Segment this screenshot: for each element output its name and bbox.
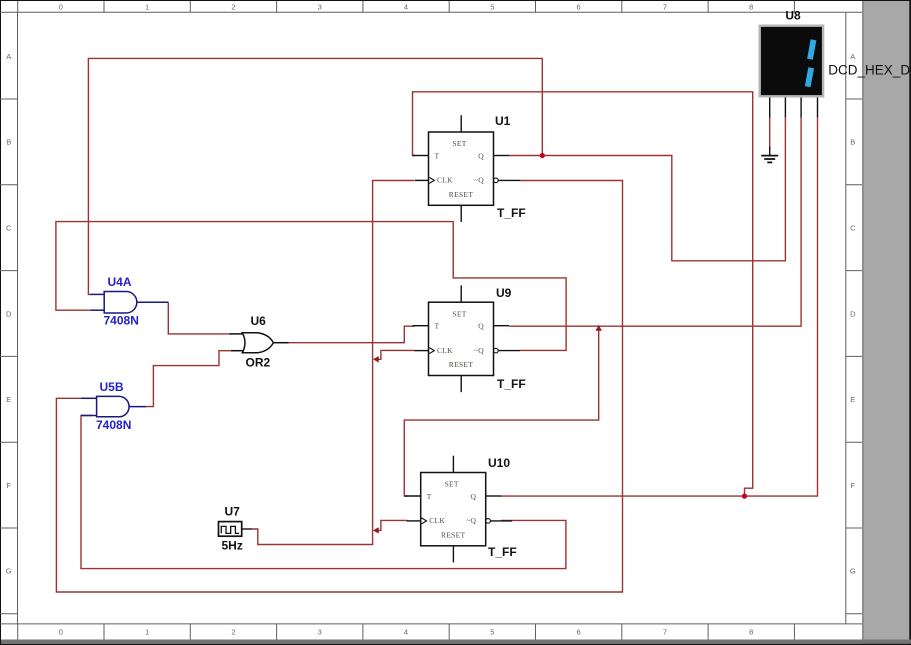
- svg-text:4: 4: [404, 628, 408, 637]
- svg-text:D: D: [850, 309, 856, 318]
- svg-text:E: E: [850, 395, 855, 404]
- right scrollbar: [862, 0, 911, 645]
- junction arrow U9.Q branch: [596, 325, 602, 331]
- wire branch U1.Q to U4A input 1: [88, 58, 542, 294]
- svg-text:7408N: 7408N: [104, 314, 139, 328]
- wire U10.Q to display pin4: [501, 117, 818, 496]
- svg-text:6: 6: [577, 628, 581, 637]
- junction dot U1.Q: [540, 153, 545, 158]
- svg-text:T_FF: T_FF: [497, 206, 526, 220]
- svg-text:G: G: [850, 567, 856, 576]
- svg-text:E: E: [6, 395, 11, 404]
- svg-text:G: G: [6, 567, 12, 576]
- clock source U7: [219, 522, 252, 537]
- bottom ruler ticks: [18, 624, 795, 640]
- svg-text:B: B: [6, 138, 11, 147]
- top ruler ticks: [18, 1, 795, 12]
- wire U9.~Q to U4A input 2: [56, 222, 566, 351]
- AND gate U5B: [81, 396, 146, 416]
- wire U5B.out to U6 input 2: [146, 351, 231, 407]
- svg-text:8: 8: [749, 628, 753, 637]
- left border letters: [6, 52, 12, 576]
- svg-text:A: A: [6, 52, 11, 61]
- svg-text:F: F: [851, 481, 856, 490]
- svg-text:B: B: [850, 138, 855, 147]
- bottom scrollbar: [0, 640, 911, 645]
- bottom ruler digits: [59, 628, 754, 637]
- wire U4A.out to U6 input 1: [168, 302, 229, 334]
- svg-text:1: 1: [145, 3, 149, 12]
- junction dot U10.Q: [742, 494, 747, 499]
- wire branch clock to U9.CLK: [376, 350, 415, 359]
- wire branch U9.Q to U10.T: [404, 326, 598, 496]
- wire branch U10.Q to U1.T: [413, 92, 753, 496]
- svg-text:7: 7: [663, 628, 667, 637]
- svg-text:U5B: U5B: [100, 380, 124, 394]
- svg-text:T_FF: T_FF: [488, 545, 517, 559]
- svg-text:U1: U1: [495, 114, 511, 128]
- wire U1.~Q to U5B input 1: [56, 181, 622, 593]
- ground: [761, 147, 778, 163]
- AND gate U4A: [91, 292, 169, 314]
- svg-text:2: 2: [231, 628, 235, 637]
- svg-text:5: 5: [490, 3, 494, 12]
- svg-text:5Hz: 5Hz: [222, 539, 243, 553]
- svg-text:3: 3: [318, 3, 322, 12]
- svg-text:A: A: [850, 52, 855, 61]
- top ruler digits: [59, 3, 754, 12]
- svg-text:C: C: [850, 224, 856, 233]
- wire U9.Q to display pin3: [509, 117, 801, 326]
- svg-text:U7: U7: [225, 505, 241, 519]
- svg-text:7408N: 7408N: [96, 418, 131, 432]
- svg-text:U6: U6: [251, 314, 267, 328]
- svg-text:3: 3: [318, 628, 322, 637]
- svg-text:8: 8: [749, 3, 753, 12]
- wire U10.~Q to U5B input 2: [81, 416, 566, 569]
- svg-text:U8: U8: [785, 9, 801, 23]
- svg-text:4: 4: [404, 3, 408, 12]
- svg-text:5: 5: [490, 628, 494, 637]
- seven-segment display U8: [760, 26, 823, 118]
- wire U1.Q to display pin2: [509, 117, 785, 261]
- wire clock net 5Hz to U1.CLK: [252, 181, 414, 545]
- right border letters: [850, 52, 856, 576]
- junction arrow U10.CLK: [373, 527, 379, 533]
- svg-text:U10: U10: [488, 456, 510, 470]
- wire U6.out to U9.T: [289, 326, 415, 343]
- OR gate U6: [229, 333, 289, 353]
- wire branch clock to U10.CLK: [376, 520, 408, 530]
- svg-text:2: 2: [231, 3, 235, 12]
- right border row dividers: [846, 99, 862, 614]
- flip-flop U1: [413, 115, 521, 222]
- svg-text:7: 7: [663, 3, 667, 12]
- svg-text:U9: U9: [496, 286, 512, 300]
- junction arrow U9.CLK: [373, 356, 379, 362]
- svg-text:C: C: [6, 224, 12, 233]
- left border row dividers: [0, 99, 18, 614]
- flip-flop U9: [413, 285, 521, 392]
- svg-text:OR2: OR2: [246, 356, 271, 370]
- svg-text:T_FF: T_FF: [497, 377, 526, 391]
- svg-text:F: F: [6, 481, 11, 490]
- svg-text:6: 6: [577, 3, 581, 12]
- flip-flop U10: [405, 456, 513, 563]
- svg-text:0: 0: [59, 628, 63, 637]
- wire display pin1 to ground: [769, 117, 771, 147]
- svg-text:1: 1: [145, 628, 149, 637]
- svg-text:U4A: U4A: [108, 275, 132, 289]
- svg-text:D: D: [6, 309, 12, 318]
- svg-text:DCD_HEX_DIG: DCD_HEX_DIG: [828, 63, 911, 78]
- svg-text:0: 0: [59, 3, 63, 12]
